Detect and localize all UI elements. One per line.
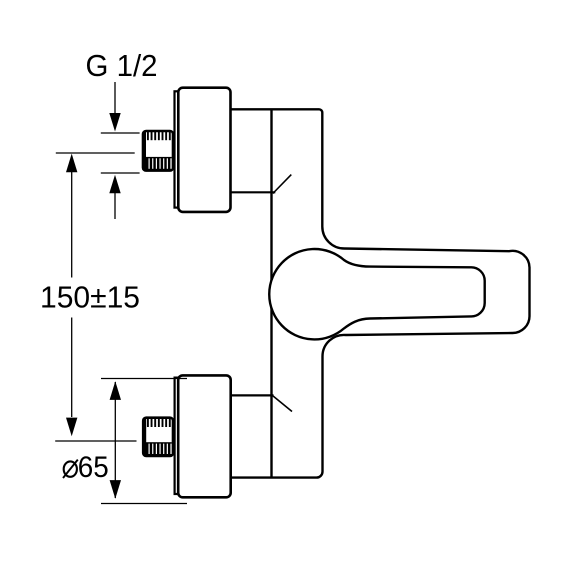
ø65 dim: down arrowhead xyxy=(110,480,121,499)
G1/2 dim: tick top xyxy=(101,132,140,134)
top threaded nipple G1/2 xyxy=(143,131,173,171)
ø65 dim: up arrowhead xyxy=(110,381,121,400)
top shoulder line xyxy=(231,191,275,193)
ø65 dim: bottom tick xyxy=(101,503,187,505)
bottom break diagonal xyxy=(272,395,292,411)
top centerline xyxy=(56,152,135,154)
bottom shoulder line xyxy=(231,394,274,396)
ø65 dim: top tick xyxy=(101,378,187,380)
body front-left edge xyxy=(270,110,272,476)
body outline with lever fillets xyxy=(231,109,530,477)
lever handle keyhole (knob circle + slot) xyxy=(269,249,484,339)
G1/2 dim: up arrow xyxy=(109,175,120,194)
svg-text:65: 65 xyxy=(78,451,109,484)
G1/2 dim: down arrow xyxy=(114,82,116,114)
150 dim: bottom arrowhead xyxy=(66,418,77,437)
top inlet: wall plate xyxy=(175,91,182,207)
svg-text:G 1/2: G 1/2 xyxy=(86,49,158,83)
ø65 dim: vertical line xyxy=(114,382,116,498)
bottom escutcheon xyxy=(178,375,231,497)
150 dim: lower line xyxy=(71,318,73,418)
svg-text:150±15: 150±15 xyxy=(40,280,140,314)
label ø65: diameter symbol xyxy=(64,461,77,476)
bottom threaded nipple G1/2 xyxy=(143,418,173,456)
150 dim: top arrowhead xyxy=(66,154,77,173)
150 dim: upper line xyxy=(71,172,73,278)
top escutcheon xyxy=(178,88,230,212)
bottom inlet: wall plate xyxy=(175,378,182,494)
top break diagonal xyxy=(273,175,292,194)
bottom centerline xyxy=(55,440,136,442)
G1/2 dim: tick bottom xyxy=(101,172,140,174)
